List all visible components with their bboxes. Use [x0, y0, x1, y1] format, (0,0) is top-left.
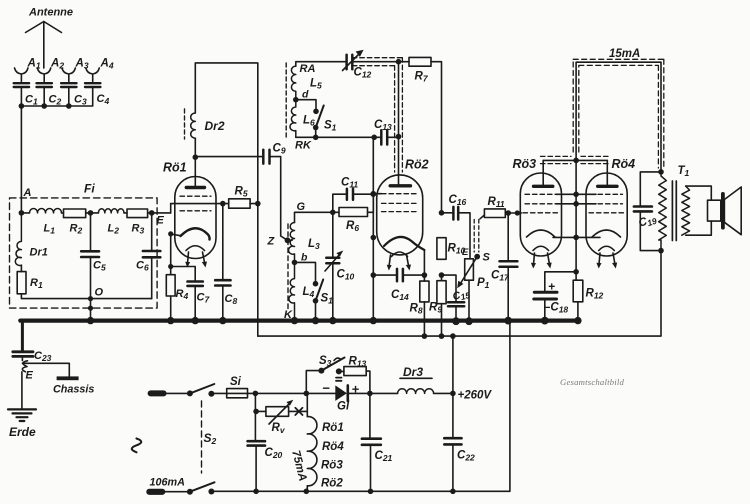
node dot d — [293, 97, 299, 103]
node dot O box edge — [88, 306, 93, 311]
svg-text:Rö2: Rö2 — [405, 158, 429, 172]
svg-text:E: E — [26, 370, 34, 382]
mains plug top — [148, 390, 167, 396]
wire Dr2 to anode node — [194, 138, 196, 157]
transformer T1 primary — [659, 172, 667, 251]
node dot C13 right on anode lead — [396, 134, 402, 140]
P1 arrow — [460, 257, 477, 285]
socket A2 — [37, 68, 51, 82]
ground bus junction dots — [87, 317, 582, 325]
socket A3 — [62, 68, 76, 82]
15mA dashed outline outer — [573, 59, 664, 168]
heater arrow right Ro2 — [407, 255, 409, 267]
tube Ro4 anode — [598, 185, 617, 188]
capacitor C1 — [14, 83, 29, 87]
variable capacitor C12 — [347, 55, 353, 70]
gang link dashed L3/L4 — [287, 224, 289, 310]
anode screen dashes — [541, 156, 611, 163]
resistor R4 — [170, 267, 172, 321]
wire R1 to bottom rail — [21, 294, 151, 299]
tube Ro2 heater arc — [392, 252, 408, 257]
heater chain winding — [307, 417, 317, 492]
inductor L3 — [289, 223, 295, 263]
svg-text:+260V: +260V — [458, 390, 493, 402]
wire R11 right to Ro3 grid — [505, 212, 521, 214]
node dot G/C10 — [330, 210, 336, 216]
wire C15 tap — [442, 275, 457, 302]
wire L1-R2 — [21, 212, 63, 214]
wire Rv to lamp — [289, 410, 308, 412]
switch S1b arm — [316, 280, 324, 301]
transformer T1 core — [672, 181, 676, 241]
svg-text:A: A — [23, 187, 32, 199]
junction dots on antenna bus — [19, 103, 72, 109]
tube Ro1 envelope — [175, 177, 216, 259]
capacitor C14 — [373, 274, 424, 276]
capacitor C19 branch — [640, 172, 661, 251]
wire C12 to R7 node — [352, 61, 409, 63]
node dot T1 top — [658, 169, 664, 175]
wire R5 right — [250, 203, 258, 205]
fuse Si — [227, 389, 248, 398]
capacitor C11 — [347, 189, 353, 200]
node dot S1 on RK wire — [313, 135, 319, 141]
arrow C12 — [343, 54, 360, 71]
svg-text:15mA: 15mA — [609, 48, 640, 60]
return line bottom — [211, 321, 510, 492]
inductor L1 — [30, 208, 62, 212]
slider dot S — [474, 254, 480, 260]
wire anode link — [543, 159, 607, 161]
tube Ro3 anode — [534, 185, 553, 188]
wire lamp to heater chain — [306, 393, 308, 416]
resistor R12 — [576, 272, 578, 321]
capacitor C9 — [263, 150, 269, 164]
capacitor C20 — [254, 393, 257, 491]
15mA loop wire — [576, 62, 661, 172]
inductor L2 — [98, 209, 124, 213]
wire b to S1 — [295, 262, 316, 283]
antenna symbol — [26, 22, 62, 69]
svg-text:Rö4: Rö4 — [322, 441, 344, 453]
wire Z stub — [288, 239, 293, 241]
wire R13 to Gl right — [366, 371, 370, 393]
capacitor C2 — [37, 83, 52, 87]
svg-text:E: E — [157, 215, 165, 227]
inductor L6 — [290, 100, 296, 138]
capacitor C19 — [634, 207, 652, 212]
capacitor C11 branch — [333, 194, 374, 212]
capacitor C4 — [85, 83, 100, 87]
heater arrow right Ro1 — [203, 252, 205, 264]
node dot E — [149, 210, 155, 216]
wire cathode out — [171, 234, 181, 267]
resistor R8 — [423, 275, 425, 336]
link S dashed — [474, 220, 479, 253]
wire cathode node to C18 — [545, 272, 576, 291]
capacitor C3 — [61, 83, 76, 87]
resistor R11 — [480, 215, 484, 219]
svg-text:S: S — [483, 252, 491, 264]
node dot C14 right — [422, 272, 428, 278]
wire L2-R3 — [124, 212, 127, 214]
svg-text:Rö2: Rö2 — [321, 478, 343, 490]
tube Ro4 cathode — [592, 230, 621, 237]
svg-text:Dr2: Dr2 — [205, 119, 225, 133]
switch S1 top contact dot — [313, 109, 319, 115]
node dot +260V — [450, 391, 456, 397]
svg-text:RK: RK — [295, 140, 312, 152]
capacitor C23 — [13, 352, 33, 357]
S3 equals mark — [336, 378, 342, 381]
variable resistor Rv — [266, 407, 289, 417]
supply rail junction dots — [422, 333, 456, 339]
capacitor C10 (variable) — [332, 212, 334, 320]
wire grid stub — [373, 193, 381, 195]
svg-text:Fi: Fi — [84, 182, 95, 196]
speaker magnet bar — [721, 192, 725, 230]
choke Dr1 — [15, 213, 21, 266]
capacitor C17 — [507, 213, 509, 319]
heater arrows Ro3 — [534, 253, 535, 265]
svg-text:+: + — [352, 382, 360, 397]
tube Ro3 heater arc — [533, 246, 549, 250]
lamp X symbol — [295, 408, 302, 415]
capacitor C8 — [222, 204, 224, 321]
wire RK bottom — [296, 128, 374, 138]
cathode tie wire — [553, 236, 600, 238]
wire Dr1-R1 — [20, 265, 22, 271]
15mA dashed outline inner — [579, 65, 659, 168]
svg-text:Chassis: Chassis — [53, 384, 94, 396]
node dot C16 tap — [439, 210, 445, 216]
tube Ro3 envelope — [520, 173, 561, 256]
capacitor C13 — [381, 130, 387, 144]
wire Dr3 to +260V — [434, 392, 453, 394]
tube Ro1 grid wire — [171, 203, 229, 205]
inductor L5 — [291, 66, 295, 100]
wire to C7 — [171, 267, 196, 282]
node dot C14 left — [371, 272, 377, 278]
capacitor C22 — [452, 393, 454, 491]
node dot R11 right — [505, 210, 511, 216]
wire E to grid — [170, 204, 172, 213]
capacitor C6 — [151, 213, 153, 299]
node dot R10/R9 — [439, 272, 445, 278]
wire R3-E — [148, 212, 171, 214]
wire to fuse — [211, 392, 226, 394]
resistor R13 — [344, 367, 366, 376]
wire cathode down to C14 node — [423, 250, 425, 275]
arrow C10 — [325, 255, 340, 272]
chassis ground bus (thick) — [20, 319, 578, 323]
tube Ro2 grid rows (dashed) — [382, 194, 418, 212]
switch S1 arm — [316, 106, 324, 128]
wire R2-L2 — [86, 212, 99, 214]
tube Ro4 envelope — [586, 173, 627, 256]
node dot R5 right — [255, 201, 261, 207]
screen dashes around anode lead (dashed) — [352, 58, 402, 172]
wire to Erde ground — [21, 372, 23, 409]
svg-text:Gesamtschaltbild: Gesamtschaltbild — [560, 377, 624, 387]
node dot cathode — [168, 231, 173, 236]
connector E (plug symbol) — [22, 356, 27, 371]
wire d to switch — [296, 100, 316, 112]
center vertical tube link — [575, 158, 577, 272]
wire anode lead Ro2 — [398, 62, 400, 185]
tube Ro1 cathode — [181, 228, 210, 239]
svg-text:Dr1: Dr1 — [30, 247, 48, 259]
return line junction dots — [253, 489, 455, 495]
wire R6 right — [368, 211, 374, 213]
wire secondary to speaker — [686, 186, 712, 235]
resistor R6 — [339, 208, 368, 217]
node dot b — [292, 260, 298, 266]
potentiometer P1 — [465, 259, 474, 280]
switch S2 top — [187, 390, 193, 396]
node dot Si right — [253, 391, 259, 397]
choke Dr2 — [191, 113, 196, 140]
node dots center — [573, 192, 579, 241]
branch Rv — [253, 409, 259, 415]
node dot suppressor — [371, 235, 377, 241]
resistor R3 — [127, 209, 148, 218]
rectifier Gl — [335, 385, 347, 401]
wire O to ground bus — [90, 299, 92, 321]
tube Ro1 anode — [194, 157, 196, 186]
svg-text:Gl: Gl — [337, 401, 350, 413]
heater arrow left Ro2 — [389, 255, 391, 267]
svg-text:Rö3: Rö3 — [513, 157, 537, 171]
resistor R9 — [441, 275, 443, 336]
svg-text:+: + — [548, 280, 555, 294]
svg-text:Z: Z — [267, 236, 276, 248]
wire anode node to C9 — [195, 156, 263, 158]
tube Ro2 envelope — [377, 175, 423, 255]
node dot cathode R12 — [573, 269, 579, 275]
switch S1b top dot — [313, 281, 319, 287]
S3 tilde — [334, 358, 341, 360]
supply rail (second bus) — [258, 251, 661, 337]
wire bus to C23 (thick) — [21, 321, 24, 352]
heater arrows Ro4 — [599, 253, 600, 265]
choke Dr3 — [398, 389, 434, 394]
wire B+ up to rail — [452, 336, 454, 393]
tube Ro1 grid rows (dashed) — [180, 195, 211, 197]
svg-text:E: E — [462, 247, 469, 258]
node dot O rail — [88, 296, 93, 301]
chassis symbol — [57, 376, 79, 380]
grid rows Ro4 (dashed) — [589, 194, 624, 213]
svg-text:Rö1: Rö1 — [163, 161, 187, 175]
svg-text:RA: RA — [300, 63, 316, 75]
wire P1 bottom to bus — [468, 280, 470, 319]
wire Gl to Dr3 — [348, 392, 398, 394]
node dot C8 grid — [220, 201, 226, 207]
wire antenna bus — [21, 87, 92, 106]
mains plug bottom — [146, 489, 165, 495]
switch S2 bottom — [187, 489, 193, 495]
node dot T1 bottom — [658, 248, 664, 254]
coil core RA (dashed) — [285, 63, 287, 137]
wire G node — [295, 212, 340, 222]
node dot C13 left — [371, 135, 377, 141]
wire Si to Gl — [255, 392, 335, 394]
grid rows Ro3 (dashed) — [523, 194, 558, 213]
svg-text:Rö1: Rö1 — [322, 422, 344, 434]
tube Ro1 heater arc — [186, 246, 205, 251]
speaker horn — [724, 187, 741, 235]
socket A4 — [86, 68, 100, 82]
socket A1 — [15, 68, 29, 82]
wire S1b to bus — [315, 301, 317, 321]
node dot R4 top — [168, 264, 173, 269]
node dot Gl left — [304, 391, 310, 397]
earth ground symbol — [8, 409, 36, 421]
svg-text:Dr3: Dr3 — [403, 365, 423, 379]
svg-text:Si: Si — [230, 376, 242, 388]
branch S3/R13 — [306, 371, 321, 394]
resistor R2 — [64, 209, 86, 218]
svg-text:106mA: 106mA — [150, 477, 186, 489]
capacitor C18 electrolytic — [534, 292, 557, 299]
switch S1 lower contact dot — [313, 125, 319, 131]
inductor L4 — [289, 262, 295, 320]
node dot anode Ro1 — [193, 154, 199, 160]
svg-text:Erde: Erde — [9, 425, 36, 439]
mains symbol ~ — [132, 439, 142, 453]
svg-text:G: G — [297, 201, 306, 213]
wire S3 to R13 — [339, 370, 344, 372]
resistor R10 — [437, 238, 446, 260]
wire to Chassis — [22, 363, 69, 376]
switch S3 — [318, 368, 324, 374]
transformer T1 secondary — [682, 186, 690, 235]
screen tie wires — [556, 194, 596, 204]
resistor R7 — [409, 57, 431, 66]
tube Ro2 cathode — [384, 237, 424, 250]
tube Ro4 heater arc — [599, 246, 615, 250]
svg-text:−: − — [322, 381, 330, 396]
svg-text:O: O — [95, 287, 104, 299]
node dot Gl right — [367, 391, 373, 397]
label Dr3 underline — [400, 377, 432, 379]
wire anode supply loop top — [195, 63, 257, 336]
speaker coil box — [708, 200, 721, 221]
node dot grid — [371, 191, 377, 197]
capacitor C15 — [448, 302, 464, 306]
resistor R1 — [17, 272, 26, 294]
resistor R5 — [229, 199, 250, 208]
heater arrow left Ro1 — [188, 252, 189, 264]
wire L5 top to C12 — [296, 62, 347, 66]
svg-text:Rö3: Rö3 — [321, 460, 343, 472]
wire grid leak vertical — [372, 137, 374, 320]
svg-text:Antenne: Antenne — [28, 7, 73, 19]
link S2 dashed — [201, 401, 203, 473]
node dot Z — [285, 237, 291, 243]
node dot R2/L2/C5 — [88, 210, 94, 216]
shield box Fi (dashed) — [10, 198, 158, 308]
wire A down to Fi — [20, 106, 22, 213]
node dot C11 right — [371, 191, 377, 197]
capacitor C7 — [188, 282, 203, 286]
svg-text:d: d — [302, 89, 309, 101]
node dot grid entry — [515, 210, 520, 215]
node dot anode Ro2 top — [396, 59, 402, 65]
wire R7 right down to rail — [431, 62, 442, 213]
svg-text:Rö4: Rö4 — [612, 157, 636, 171]
switch S1b bottom dot — [313, 298, 319, 304]
tube Ro2 anode — [390, 184, 410, 187]
capacitor C21 — [369, 393, 372, 491]
node dot anode center — [573, 158, 579, 164]
choke Dr2 core (dashed) — [184, 109, 186, 139]
capacitor C16 — [442, 213, 471, 259]
node dot A — [19, 210, 25, 216]
wire C9 down to Z — [270, 157, 288, 241]
tube Ro3 cathode — [527, 230, 556, 237]
capacitor C5 — [90, 213, 92, 299]
